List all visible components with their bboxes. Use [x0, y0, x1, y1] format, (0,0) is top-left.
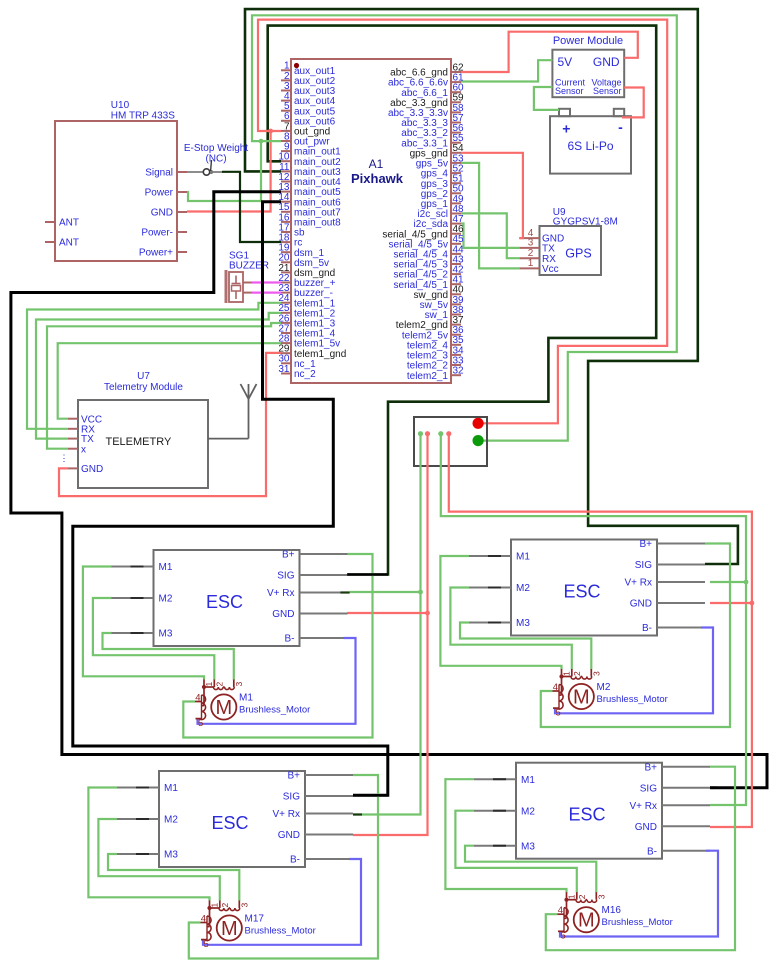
svg-text:Power: Power	[145, 188, 174, 199]
svg-text:B-: B-	[647, 846, 657, 857]
svg-text:ANT: ANT	[59, 218, 79, 229]
svg-text:M2: M2	[159, 594, 173, 605]
svg-text:GND: GND	[278, 830, 300, 841]
svg-text:M2: M2	[516, 583, 530, 594]
svg-text:nc_2: nc_2	[294, 369, 316, 380]
svg-text:U7: U7	[137, 371, 150, 382]
svg-text:M3: M3	[521, 841, 535, 852]
svg-text:GPS: GPS	[565, 247, 591, 261]
svg-text:B-: B-	[290, 855, 300, 866]
svg-text:2: 2	[220, 903, 230, 908]
svg-text:M: M	[573, 687, 590, 709]
svg-text:GND: GND	[635, 822, 657, 833]
svg-text:ESC: ESC	[211, 813, 248, 833]
svg-text:4: 4	[553, 682, 558, 693]
svg-text:1: 1	[567, 894, 577, 899]
svg-text:Brushless_Motor: Brushless_Motor	[239, 705, 310, 716]
svg-text:M3: M3	[516, 618, 530, 629]
svg-text:M1: M1	[159, 562, 173, 573]
svg-text:Brushless_Motor: Brushless_Motor	[245, 926, 316, 937]
svg-text:M: M	[578, 910, 595, 932]
svg-text:32: 32	[453, 366, 465, 377]
svg-text:5: 5	[204, 939, 209, 950]
svg-text:M2: M2	[164, 815, 178, 826]
svg-text:Telemetry Module: Telemetry Module	[104, 382, 183, 393]
svg-text:Brushless_Motor: Brushless_Motor	[602, 917, 673, 928]
svg-text:HM TRP 433S: HM TRP 433S	[111, 111, 175, 122]
svg-text:M3: M3	[159, 629, 173, 640]
svg-text:M1: M1	[521, 775, 535, 786]
svg-text:SIG: SIG	[283, 792, 300, 803]
svg-text:GYGPSV1-8M: GYGPSV1-8M	[553, 217, 618, 228]
svg-text:Signal: Signal	[145, 168, 173, 179]
svg-text:5: 5	[556, 708, 561, 719]
svg-text:A1: A1	[369, 157, 384, 171]
svg-text:telem2_1: telem2_1	[407, 371, 449, 382]
svg-text:5: 5	[561, 931, 566, 942]
svg-text:V+ Rx: V+ Rx	[272, 809, 300, 820]
svg-text:GND: GND	[593, 55, 620, 69]
svg-text:1: 1	[204, 682, 214, 687]
svg-text:Vcc: Vcc	[542, 264, 559, 275]
svg-text:U10: U10	[111, 100, 130, 111]
svg-text:2: 2	[577, 894, 587, 899]
svg-text:4: 4	[558, 905, 563, 916]
svg-text:⋮: ⋮	[60, 453, 69, 463]
svg-text:B+: B+	[639, 539, 652, 550]
svg-text:Sensor: Sensor	[593, 86, 622, 96]
svg-text:3: 3	[592, 671, 602, 676]
svg-text:2: 2	[572, 671, 582, 676]
svg-text:V+ Rx: V+ Rx	[624, 578, 652, 589]
svg-text:1: 1	[528, 258, 534, 269]
svg-text:M1: M1	[164, 783, 178, 794]
svg-text:M3: M3	[164, 850, 178, 861]
svg-text:GND: GND	[630, 599, 652, 610]
svg-text:3: 3	[240, 903, 250, 908]
svg-text:B-: B-	[642, 623, 652, 634]
svg-text:ESC: ESC	[563, 582, 600, 602]
svg-text:GND: GND	[151, 208, 173, 219]
svg-text:M: M	[221, 918, 238, 940]
svg-text:2: 2	[215, 682, 225, 687]
svg-text:1: 1	[562, 671, 572, 676]
svg-text:B+: B+	[282, 550, 295, 561]
svg-text:5: 5	[198, 718, 203, 729]
svg-text:4: 4	[201, 914, 206, 925]
svg-text:V+ Rx: V+ Rx	[629, 801, 657, 812]
svg-text:E-Stop Weight: E-Stop Weight	[184, 143, 249, 154]
svg-text:SIG: SIG	[277, 571, 294, 582]
svg-text:5V: 5V	[558, 55, 573, 69]
svg-text:M: M	[215, 697, 232, 719]
svg-text:GND: GND	[81, 464, 103, 475]
svg-text:M1: M1	[239, 693, 253, 704]
svg-text:V+ Rx: V+ Rx	[267, 588, 295, 599]
svg-text:M16: M16	[602, 905, 622, 916]
svg-text:SIG: SIG	[640, 783, 657, 794]
svg-text:x: x	[81, 444, 86, 455]
svg-text:M2: M2	[597, 682, 611, 693]
svg-text:3: 3	[234, 682, 244, 687]
svg-text:Sensor: Sensor	[555, 86, 584, 96]
svg-text:3: 3	[597, 894, 607, 899]
svg-text:Power-: Power-	[141, 228, 173, 239]
svg-text:M2: M2	[521, 806, 535, 817]
svg-text:B+: B+	[287, 771, 300, 782]
svg-text:SIG: SIG	[635, 560, 652, 571]
svg-text:Pixhawk: Pixhawk	[351, 171, 404, 186]
svg-text:GND: GND	[272, 609, 294, 620]
svg-text:B-: B-	[285, 634, 295, 645]
svg-text:Power Module: Power Module	[553, 35, 623, 47]
svg-text:31: 31	[278, 364, 290, 375]
svg-text:ESC: ESC	[206, 592, 243, 612]
svg-text:+: +	[562, 121, 570, 137]
svg-text:M1: M1	[516, 552, 530, 563]
svg-text:(NC): (NC)	[205, 154, 226, 165]
svg-text:ESC: ESC	[568, 805, 605, 825]
svg-text:Power+: Power+	[139, 248, 173, 259]
svg-text:Brushless_Motor: Brushless_Motor	[597, 694, 668, 705]
svg-text:6S Li-Po: 6S Li-Po	[567, 139, 613, 153]
svg-text:4: 4	[195, 693, 200, 704]
svg-text:TELEMETRY: TELEMETRY	[106, 436, 172, 448]
svg-text:ANT: ANT	[59, 238, 79, 249]
svg-text:B+: B+	[644, 762, 657, 773]
svg-text:M17: M17	[245, 914, 265, 925]
svg-text:-: -	[618, 119, 623, 135]
svg-text:1: 1	[210, 903, 220, 908]
